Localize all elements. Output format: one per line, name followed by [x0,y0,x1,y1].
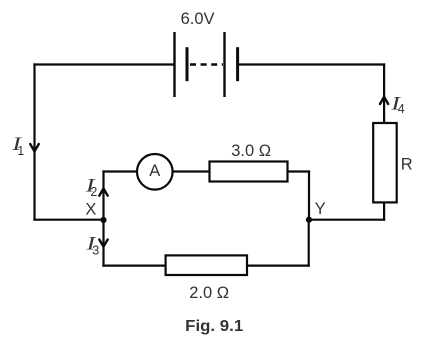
resistor 2.0 ohm box [166,255,247,275]
wire left vertical [33,63,35,220]
battery dashed link [190,63,223,65]
svg-text:2.0 Ω: 2.0 Ω [189,284,229,302]
wire Y to right vertical [309,219,385,221]
current arrow I3 (down) [99,240,107,247]
battery cell 1 short plate [186,47,189,81]
wire ammeter to 3.0 ohm resistor [173,170,209,172]
svg-text:4: 4 [398,102,405,116]
battery cell 2 long plate [223,32,225,97]
wire Y down vertical [308,219,310,267]
wire top-left horizontal [33,63,175,65]
wire bottom-left horizontal [102,265,166,267]
svg-text:6.0V: 6.0V [181,10,215,28]
wire X up vertical [102,170,104,219]
resistor R box [373,123,397,202]
svg-text:R: R [401,156,413,174]
wire 3.0 ohm resistor to corner [288,170,310,172]
wire corner down to Y [308,170,310,219]
current arrow I4 (up) [380,97,388,104]
svg-text:3.0 Ω: 3.0 Ω [231,142,271,160]
svg-text:A: A [149,162,160,180]
svg-text:X: X [85,201,96,219]
ammeter A1 circle [137,154,173,190]
wire X down vertical [102,220,104,267]
svg-text:Fig. 9.1: Fig. 9.1 [185,318,243,335]
wire left-to-X horizontal [33,219,103,221]
battery cell 2 short plate [236,47,239,81]
current arrow I2 (up) [99,189,107,196]
wire right vertical above R [383,63,385,123]
wire right vertical below R [383,203,385,221]
node Y junction dot [306,217,312,223]
battery cell 1 long plate [173,32,175,97]
wire top-right horizontal [237,63,385,65]
wire bottom-right horizontal [247,265,310,267]
svg-text:Y: Y [315,200,326,218]
resistor 3.0 ohm box [210,162,288,182]
svg-text:3: 3 [92,244,99,258]
svg-text:2: 2 [90,185,97,199]
current arrow I1 (down) [30,144,39,151]
svg-text:1: 1 [17,144,24,158]
node X junction dot [100,217,106,223]
wire X-branch to ammeter [102,170,136,172]
